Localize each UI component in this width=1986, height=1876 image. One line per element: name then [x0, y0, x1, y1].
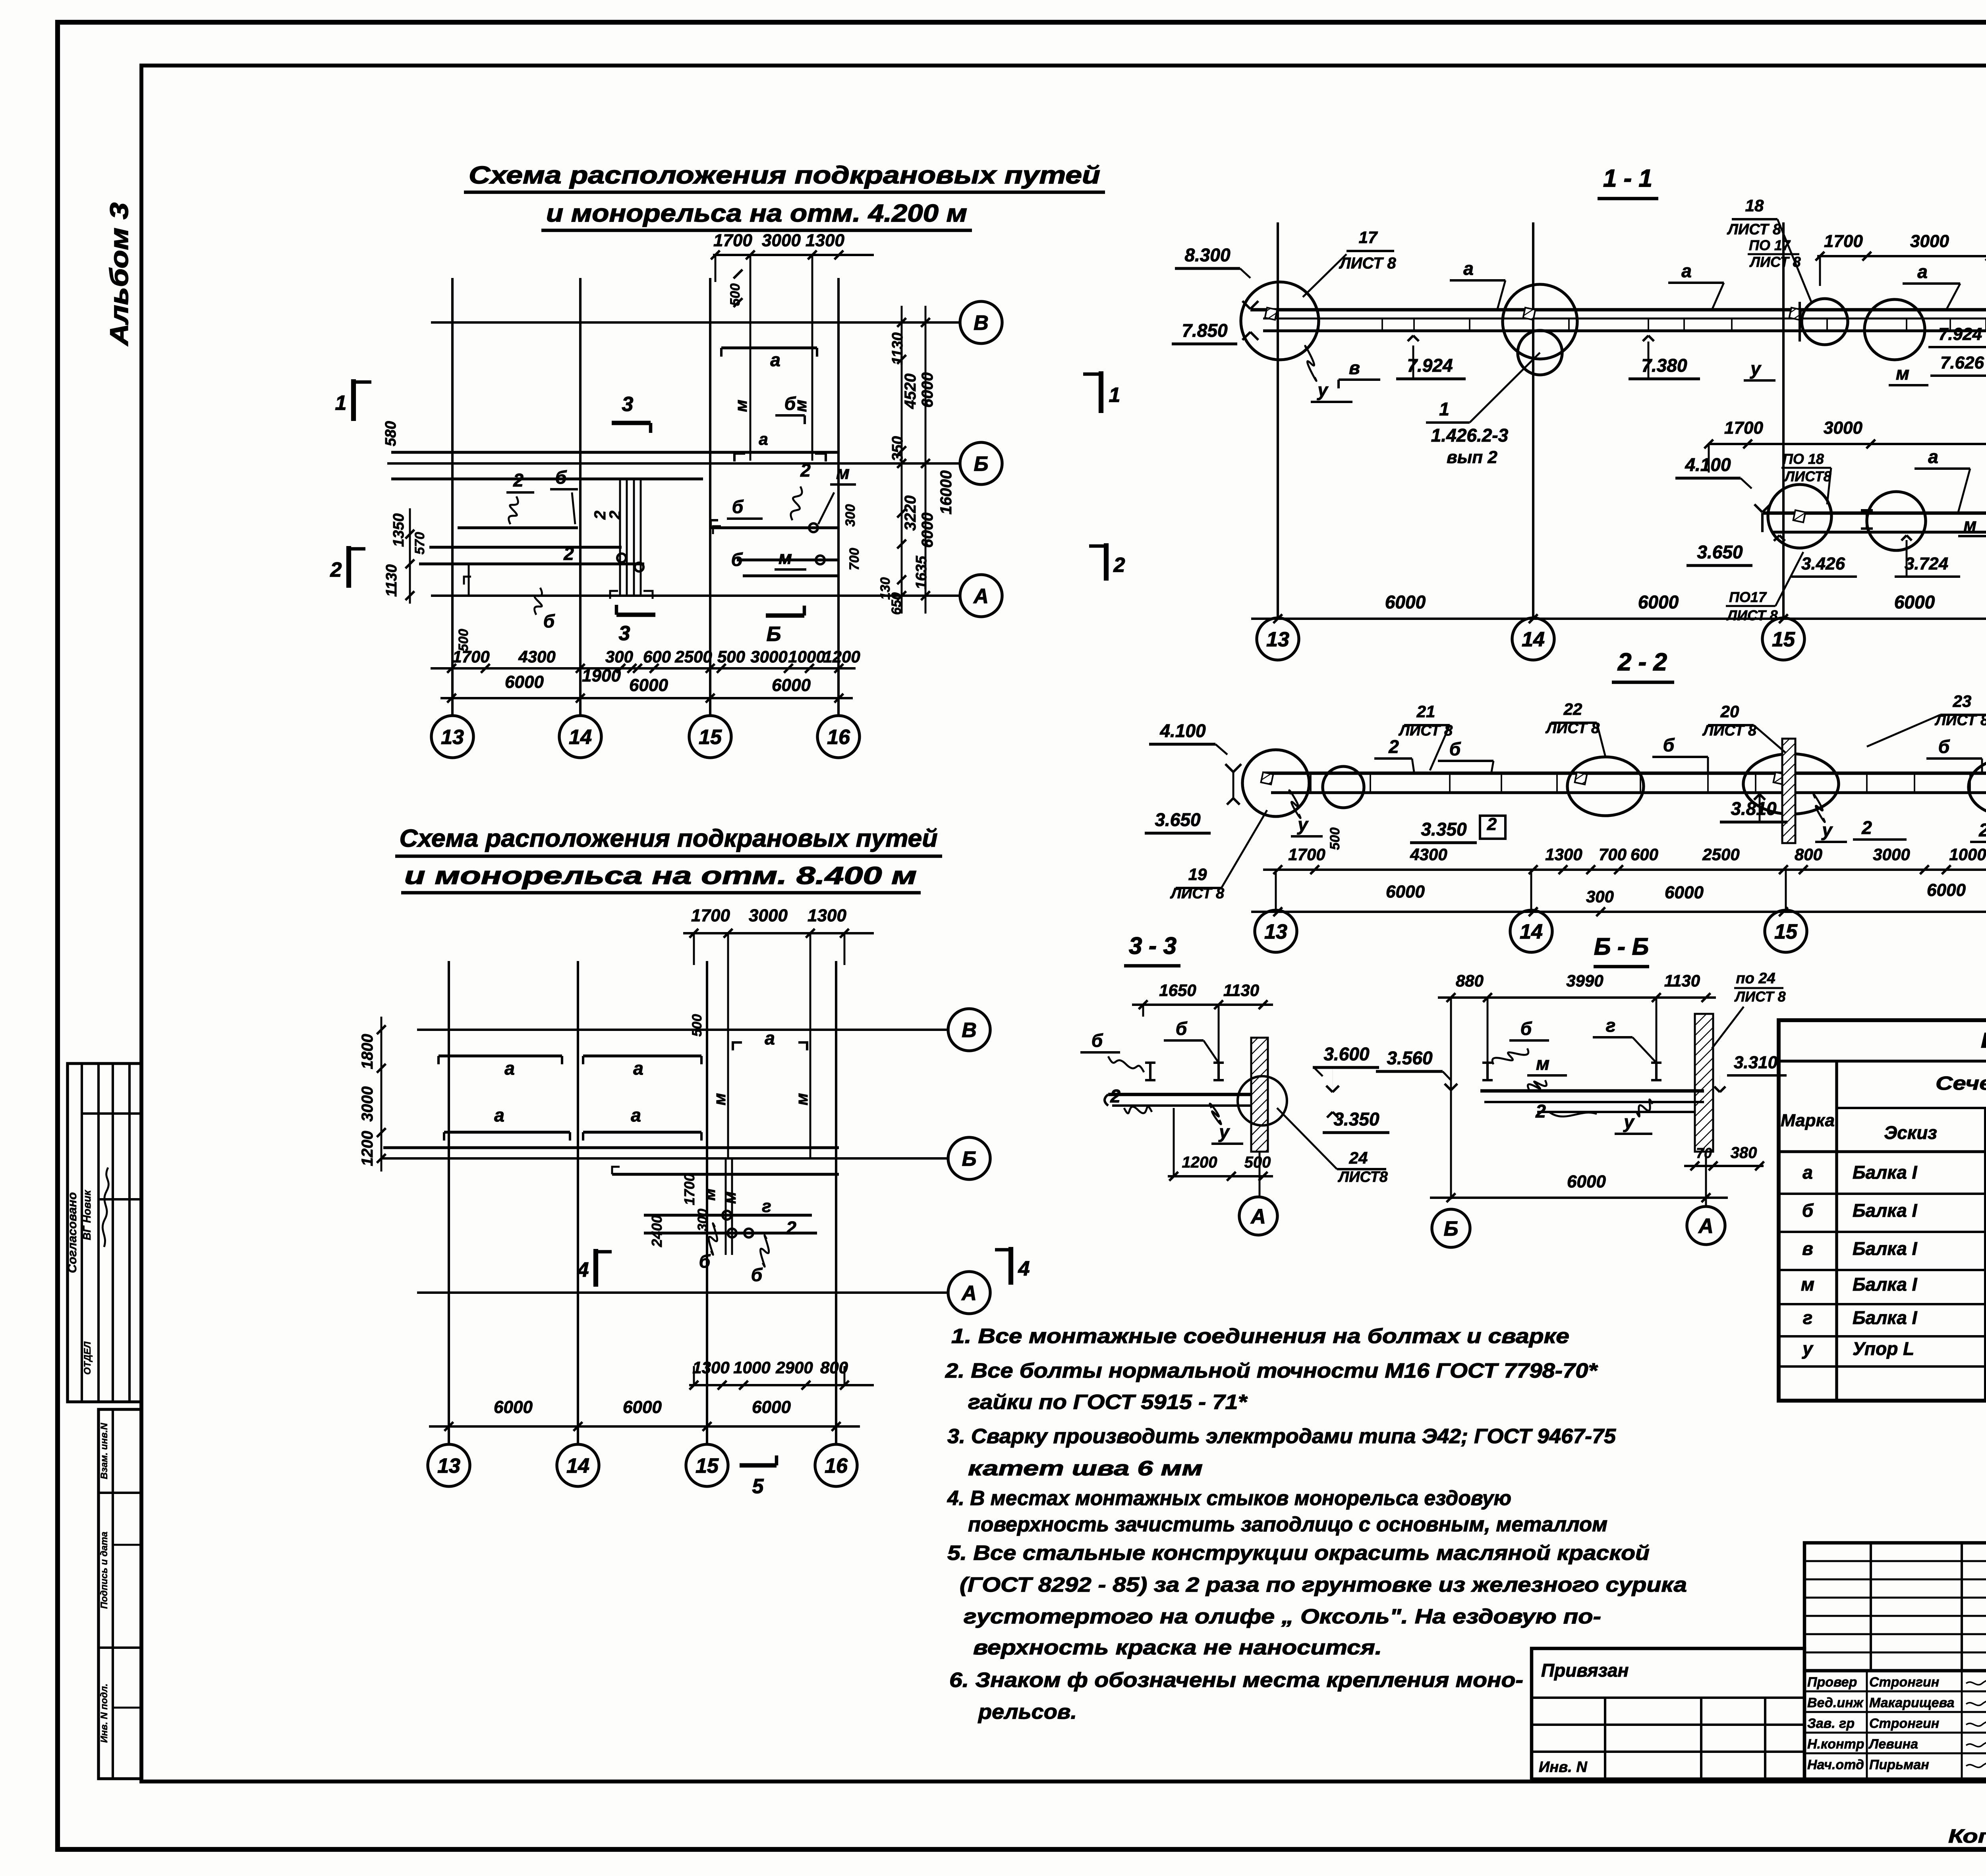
- svg-text:2400: 2400: [649, 1215, 665, 1247]
- svg-text:а: а: [633, 1058, 643, 1079]
- svg-text:1130: 1130: [1223, 981, 1259, 1000]
- svg-text:у: у: [1802, 1338, 1814, 1359]
- svg-text:Нач.отд: Нач.отд: [1807, 1757, 1864, 1772]
- svg-text:Подпись и дата: Подпись и дата: [99, 1532, 110, 1609]
- svg-text:1000: 1000: [788, 647, 825, 666]
- svg-text:3000: 3000: [1824, 418, 1862, 438]
- svg-text:500: 500: [1327, 828, 1343, 850]
- svg-text:7.850: 7.850: [1182, 320, 1228, 341]
- svg-text:6000: 6000: [629, 676, 668, 695]
- svg-text:300: 300: [605, 647, 633, 666]
- svg-text:Инв. N: Инв. N: [1539, 1759, 1588, 1776]
- svg-text:А: А: [973, 585, 989, 608]
- svg-text:Н.контр: Н.контр: [1807, 1737, 1864, 1752]
- svg-text:В: В: [962, 1019, 977, 1042]
- svg-text:570: 570: [412, 532, 427, 555]
- svg-text:3000: 3000: [359, 1087, 376, 1122]
- svg-text:1200: 1200: [359, 1131, 376, 1166]
- svg-text:В: В: [974, 312, 989, 335]
- svg-text:у: у: [1750, 358, 1762, 379]
- svg-text:15: 15: [1774, 921, 1798, 944]
- svg-text:1700: 1700: [452, 647, 489, 666]
- svg-text:рельсов.: рельсов.: [978, 1700, 1077, 1724]
- svg-text:14: 14: [1520, 921, 1543, 944]
- svg-text:130: 130: [878, 577, 893, 600]
- svg-text:ЛИСТ 8: ЛИСТ 8: [1702, 722, 1757, 739]
- svg-text:7.924: 7.924: [1938, 324, 1982, 344]
- svg-text:2: 2: [563, 543, 574, 564]
- svg-text:1300: 1300: [1545, 845, 1582, 864]
- svg-text:580: 580: [383, 421, 399, 446]
- svg-text:м: м: [1896, 363, 1909, 384]
- svg-text:6000: 6000: [1567, 1172, 1606, 1191]
- svg-text:б: б: [543, 611, 555, 631]
- svg-text:16: 16: [825, 1455, 848, 1478]
- svg-text:у: у: [1821, 820, 1833, 840]
- svg-text:б: б: [784, 393, 796, 414]
- svg-text:1700: 1700: [1288, 845, 1325, 864]
- svg-text:2: 2: [1535, 1101, 1546, 1121]
- svg-text:14: 14: [1522, 628, 1545, 651]
- svg-text:6000: 6000: [919, 372, 936, 408]
- svg-text:а: а: [1917, 261, 1928, 282]
- svg-text:1300: 1300: [808, 906, 846, 925]
- svg-text:700: 700: [1599, 845, 1627, 864]
- svg-text:Балка I: Балка I: [1853, 1162, 1918, 1183]
- svg-text:500: 500: [717, 647, 745, 666]
- svg-text:2: 2: [1113, 554, 1125, 577]
- svg-text:6000: 6000: [919, 513, 936, 548]
- svg-text:880: 880: [1456, 971, 1484, 990]
- svg-text:а: а: [1681, 261, 1692, 281]
- svg-text:6000: 6000: [1638, 592, 1679, 612]
- svg-text:700: 700: [847, 548, 862, 571]
- svg-text:13: 13: [1264, 921, 1287, 944]
- svg-text:А: А: [1698, 1215, 1714, 1238]
- svg-text:8.300: 8.300: [1184, 245, 1231, 265]
- svg-text:1800: 1800: [359, 1034, 376, 1069]
- svg-text:3.650: 3.650: [1697, 542, 1743, 562]
- svg-text:20: 20: [1720, 702, 1739, 721]
- svg-text:1000: 1000: [733, 1358, 770, 1377]
- svg-text:А: А: [1250, 1205, 1266, 1228]
- svg-text:3.426: 3.426: [1801, 554, 1845, 573]
- svg-text:5: 5: [752, 1475, 764, 1498]
- svg-text:7.626: 7.626: [1940, 353, 1984, 372]
- svg-text:и монорельса на отм. 8.40: и монорельса на отм. 8.400 м: [404, 862, 917, 890]
- svg-text:23: 23: [1953, 692, 1972, 710]
- svg-text:2: 2: [607, 511, 624, 520]
- svg-text:м: м: [1536, 1053, 1549, 1074]
- svg-text:3000: 3000: [1910, 232, 1949, 251]
- svg-text:13: 13: [437, 1455, 460, 1478]
- svg-text:м: м: [1801, 1274, 1814, 1295]
- svg-text:6000: 6000: [623, 1397, 662, 1417]
- svg-text:6000: 6000: [1665, 883, 1704, 902]
- svg-text:3: 3: [619, 622, 630, 645]
- svg-text:м: м: [700, 1188, 719, 1200]
- svg-text:Упор L: Упор L: [1853, 1338, 1914, 1359]
- svg-text:г: г: [1606, 1015, 1616, 1036]
- svg-text:4.100: 4.100: [1685, 454, 1731, 475]
- svg-text:3000: 3000: [762, 231, 801, 250]
- svg-text:1650: 1650: [1159, 981, 1196, 1000]
- svg-text:4: 4: [1018, 1257, 1030, 1280]
- svg-text:ОТДЕЛ: ОТДЕЛ: [82, 1341, 93, 1375]
- svg-text:ЛИСТ 8: ЛИСТ 8: [1545, 720, 1600, 737]
- svg-text:6000: 6000: [752, 1397, 791, 1417]
- svg-text:500: 500: [1244, 1154, 1271, 1171]
- svg-text:6000: 6000: [494, 1397, 533, 1417]
- svg-text:Левина: Левина: [1868, 1737, 1918, 1752]
- svg-text:м: м: [836, 462, 850, 483]
- svg-text:в: в: [1349, 357, 1360, 378]
- svg-text:16000: 16000: [937, 470, 955, 514]
- svg-text:(ГОСТ 8292 - 85) за 2 раза п: (ГОСТ 8292 - 85) за 2 раза по грунтовке …: [960, 1573, 1687, 1596]
- svg-text:1900: 1900: [582, 666, 621, 685]
- svg-text:3.350: 3.350: [1421, 819, 1467, 840]
- svg-text:Ведомость элементов: Ведомость элементов: [1981, 1029, 1986, 1052]
- svg-text:а: а: [759, 430, 768, 448]
- svg-text:3000: 3000: [749, 906, 788, 925]
- svg-text:м: м: [779, 547, 792, 568]
- svg-text:2900: 2900: [775, 1358, 813, 1377]
- svg-text:2. Все болты нормальной то: 2. Все болты нормальной точности М16 ГОС…: [945, 1359, 1598, 1382]
- svg-text:б: б: [1092, 1030, 1103, 1051]
- svg-text:300: 300: [843, 504, 858, 527]
- svg-text:2: 2: [1978, 820, 1986, 840]
- svg-text:1.426.2-3: 1.426.2-3: [1431, 425, 1509, 446]
- svg-text:б: б: [1938, 736, 1950, 757]
- svg-text:б: б: [1802, 1200, 1814, 1221]
- svg-text:м: м: [721, 1191, 739, 1204]
- svg-text:13: 13: [441, 726, 464, 749]
- svg-text:а: а: [1802, 1162, 1813, 1183]
- svg-text:1300: 1300: [806, 231, 844, 250]
- svg-text:Б: Б: [974, 453, 989, 476]
- svg-text:3. Сварку производить электр: 3. Сварку производить электродами типа Э…: [947, 1425, 1616, 1448]
- svg-text:3000: 3000: [1873, 845, 1910, 864]
- svg-text:1635: 1635: [913, 556, 930, 589]
- svg-text:2: 2: [513, 470, 524, 490]
- svg-text:а: а: [1928, 446, 1938, 467]
- svg-text:Балка I: Балка I: [1853, 1274, 1918, 1295]
- svg-text:б: б: [1663, 735, 1675, 755]
- svg-text:3.724: 3.724: [1905, 554, 1948, 573]
- svg-text:верхность краска не нанос: верхность краска не наносится.: [973, 1636, 1382, 1659]
- svg-text:2500: 2500: [1702, 845, 1739, 864]
- svg-text:6000: 6000: [1386, 882, 1425, 901]
- svg-text:Балка I: Балка I: [1853, 1238, 1918, 1259]
- svg-text:ПО17: ПО17: [1729, 589, 1767, 605]
- svg-text:24: 24: [1349, 1148, 1368, 1167]
- svg-text:15: 15: [695, 1455, 719, 1478]
- svg-text:гайки по ГОСТ 5915 - 71*: гайки по ГОСТ 5915 - 71*: [968, 1391, 1248, 1414]
- svg-text:1200: 1200: [823, 647, 860, 666]
- svg-text:а: а: [765, 1028, 775, 1048]
- svg-text:Эскиз: Эскиз: [1884, 1122, 1937, 1143]
- svg-text:м: м: [732, 400, 750, 412]
- svg-text:1: 1: [1439, 399, 1449, 419]
- svg-text:б: б: [732, 496, 744, 517]
- svg-text:6000: 6000: [772, 676, 811, 695]
- svg-text:Привязан: Привязан: [1541, 1660, 1629, 1681]
- svg-text:2: 2: [1110, 1086, 1121, 1106]
- svg-text:1. Все монтажные соединени: 1. Все монтажные соединения на болтах и …: [951, 1325, 1569, 1348]
- svg-text:м: м: [1964, 515, 1977, 535]
- svg-text:Взам. инв.N: Взам. инв.N: [99, 1423, 110, 1479]
- svg-text:Вед.инж: Вед.инж: [1807, 1695, 1864, 1710]
- svg-text:15: 15: [699, 726, 722, 749]
- svg-text:3000: 3000: [750, 647, 787, 666]
- svg-text:б: б: [555, 467, 567, 488]
- svg-text:6000: 6000: [1894, 592, 1935, 612]
- svg-text:ВГ Новик: ВГ Новик: [81, 1190, 93, 1240]
- svg-text:ЛИСТ8: ЛИСТ8: [1337, 1169, 1388, 1185]
- svg-text:22: 22: [1563, 700, 1582, 718]
- svg-text:3220: 3220: [902, 496, 919, 531]
- svg-text:600: 600: [1631, 845, 1658, 864]
- svg-text:ПО 18: ПО 18: [1783, 451, 1824, 467]
- svg-text:2: 2: [1487, 814, 1497, 834]
- svg-text:3.810: 3.810: [1731, 798, 1777, 819]
- svg-text:Схема расположения подкран: Схема расположения подкрановых путей: [469, 162, 1100, 189]
- svg-text:и монорельса на отм. 4.200: и монорельса на отм. 4.200 м: [546, 200, 967, 227]
- svg-text:1000: 1000: [1949, 845, 1986, 864]
- svg-text:1300: 1300: [692, 1358, 729, 1377]
- svg-text:5. Все стальные конструкции: 5. Все стальные конструкции окрасить мас…: [947, 1542, 1650, 1565]
- svg-text:13: 13: [1266, 628, 1289, 651]
- svg-text:вып 2: вып 2: [1447, 448, 1497, 467]
- svg-text:ЛИСТ 8: ЛИСТ 8: [1934, 712, 1986, 729]
- svg-text:17: 17: [1359, 228, 1378, 247]
- svg-text:15: 15: [1772, 628, 1795, 651]
- svg-text:1700: 1700: [1724, 418, 1763, 438]
- svg-text:1200: 1200: [1182, 1154, 1217, 1171]
- svg-text:1700: 1700: [691, 906, 730, 925]
- svg-text:3.350: 3.350: [1333, 1109, 1379, 1129]
- svg-text:3.650: 3.650: [1155, 809, 1201, 830]
- svg-text:Схема расположения подкранов: Схема расположения подкрановых путей: [400, 825, 938, 852]
- svg-text:г: г: [1803, 1307, 1813, 1328]
- svg-text:А: А: [961, 1282, 977, 1305]
- svg-text:3.560: 3.560: [1387, 1048, 1433, 1068]
- svg-text:1: 1: [1109, 384, 1121, 407]
- svg-text:3990: 3990: [1566, 971, 1603, 990]
- svg-text:Сечение: Сечение: [1936, 1073, 1986, 1094]
- svg-text:1 - 1: 1 - 1: [1603, 165, 1652, 192]
- svg-text:Б - Б: Б - Б: [1594, 933, 1649, 960]
- svg-text:г: г: [762, 1197, 771, 1216]
- svg-text:6000: 6000: [505, 672, 544, 692]
- svg-text:4. В местах монтажных стык: 4. В местах монтажных стыков монорельса …: [947, 1487, 1511, 1510]
- svg-text:а: а: [770, 349, 780, 370]
- svg-text:2: 2: [800, 460, 811, 481]
- svg-text:3: 3: [622, 393, 634, 416]
- svg-text:Макарищева: Макарищева: [1869, 1695, 1955, 1710]
- svg-text:800: 800: [1795, 845, 1822, 864]
- svg-text:21: 21: [1416, 702, 1435, 721]
- svg-text:Стронгин: Стронгин: [1869, 1675, 1939, 1690]
- svg-text:18: 18: [1745, 196, 1764, 215]
- svg-text:Копировал Подлевская: Копировал Подлевская: [1948, 1826, 1986, 1847]
- svg-text:500: 500: [690, 1014, 705, 1037]
- svg-text:500: 500: [728, 284, 743, 306]
- svg-text:1130: 1130: [383, 564, 400, 597]
- svg-text:м: м: [710, 1093, 729, 1105]
- svg-text:4300: 4300: [1410, 845, 1447, 864]
- svg-text:Б: Б: [1444, 1218, 1459, 1241]
- svg-text:1350: 1350: [390, 513, 407, 547]
- svg-text:густотертого на олифе „ О: густотертого на олифе „ Оксоль". На ездо…: [964, 1605, 1601, 1628]
- svg-text:а: а: [504, 1058, 515, 1079]
- svg-text:19: 19: [1188, 865, 1207, 884]
- svg-text:Инв. N подл.: Инв. N подл.: [99, 1683, 110, 1743]
- svg-text:у: у: [1623, 1112, 1635, 1132]
- svg-text:2: 2: [1861, 817, 1872, 838]
- svg-text:4: 4: [577, 1258, 589, 1282]
- svg-text:б: б: [1520, 1018, 1532, 1039]
- svg-text:2 - 2: 2 - 2: [1617, 648, 1667, 676]
- svg-text:6000: 6000: [1385, 592, 1426, 612]
- svg-text:Б: Б: [767, 623, 781, 646]
- svg-text:2: 2: [330, 558, 342, 581]
- svg-text:14: 14: [569, 726, 592, 749]
- svg-text:а: а: [631, 1105, 641, 1125]
- svg-text:1700: 1700: [713, 231, 752, 250]
- svg-text:у: у: [1317, 380, 1329, 400]
- svg-text:300: 300: [695, 1209, 710, 1231]
- svg-text:Балка I: Балка I: [1853, 1200, 1918, 1221]
- svg-text:ЛИСТ8: ЛИСТ8: [1783, 468, 1831, 484]
- svg-text:300: 300: [1586, 887, 1614, 906]
- svg-text:б: б: [699, 1251, 711, 1272]
- svg-text:катет шва 6 мм: катет шва 6 мм: [968, 1457, 1203, 1480]
- svg-text:2: 2: [1388, 736, 1399, 757]
- svg-text:3.600: 3.600: [1323, 1044, 1370, 1064]
- svg-text:600: 600: [643, 647, 671, 666]
- svg-text:поверхность зачистить заподли: поверхность зачистить заподлицо с основн…: [968, 1513, 1607, 1536]
- svg-text:Балка I: Балка I: [1853, 1307, 1918, 1328]
- svg-text:Провер: Провер: [1807, 1675, 1857, 1690]
- svg-text:Альбом 3: Альбом 3: [105, 203, 133, 346]
- svg-text:Б: Б: [962, 1148, 977, 1171]
- svg-text:4.100: 4.100: [1159, 720, 1206, 741]
- svg-text:по 24: по 24: [1736, 970, 1775, 987]
- svg-text:70: 70: [1696, 1145, 1712, 1161]
- svg-text:2: 2: [786, 1218, 796, 1238]
- svg-text:ПО 17: ПО 17: [1749, 237, 1791, 253]
- svg-text:4520: 4520: [902, 374, 919, 409]
- svg-text:Пирьман: Пирьман: [1869, 1757, 1929, 1772]
- svg-text:1: 1: [335, 392, 347, 415]
- svg-text:ЛИСТ 8: ЛИСТ 8: [1339, 255, 1396, 272]
- svg-text:1700: 1700: [681, 1173, 697, 1205]
- svg-text:1700: 1700: [1824, 232, 1863, 251]
- svg-text:Согласовано: Согласовано: [65, 1192, 79, 1273]
- svg-text:б: б: [1176, 1018, 1188, 1039]
- svg-text:3 - 3: 3 - 3: [1129, 932, 1177, 959]
- svg-text:14: 14: [566, 1455, 589, 1478]
- svg-text:а: а: [1463, 258, 1474, 279]
- svg-text:б: б: [1449, 739, 1461, 759]
- svg-text:6. Знаком ф обозначены места: 6. Знаком ф обозначены места крепления м…: [949, 1669, 1523, 1692]
- svg-text:а: а: [494, 1105, 504, 1125]
- svg-text:в: в: [1802, 1238, 1813, 1259]
- svg-text:б: б: [731, 549, 743, 570]
- svg-text:б: б: [751, 1264, 763, 1285]
- svg-text:4300: 4300: [518, 647, 555, 666]
- svg-text:Зав. гр: Зав. гр: [1807, 1716, 1855, 1731]
- svg-text:ЛИСТ 8: ЛИСТ 8: [1170, 885, 1225, 902]
- svg-text:Стронгин: Стронгин: [1869, 1716, 1939, 1731]
- svg-text:380: 380: [1731, 1144, 1757, 1162]
- svg-text:ЛИСТ 8: ЛИСТ 8: [1734, 988, 1785, 1005]
- svg-text:3.310: 3.310: [1734, 1053, 1778, 1072]
- svg-text:м: м: [792, 1093, 811, 1105]
- svg-text:6000: 6000: [1927, 880, 1966, 900]
- svg-text:Марка: Марка: [1781, 1111, 1835, 1130]
- svg-text:1130: 1130: [1664, 971, 1700, 990]
- svg-text:2500: 2500: [674, 647, 712, 666]
- svg-text:ЛИСТ 8: ЛИСТ 8: [1727, 221, 1781, 238]
- svg-text:1130: 1130: [889, 332, 906, 365]
- svg-text:16: 16: [827, 726, 850, 749]
